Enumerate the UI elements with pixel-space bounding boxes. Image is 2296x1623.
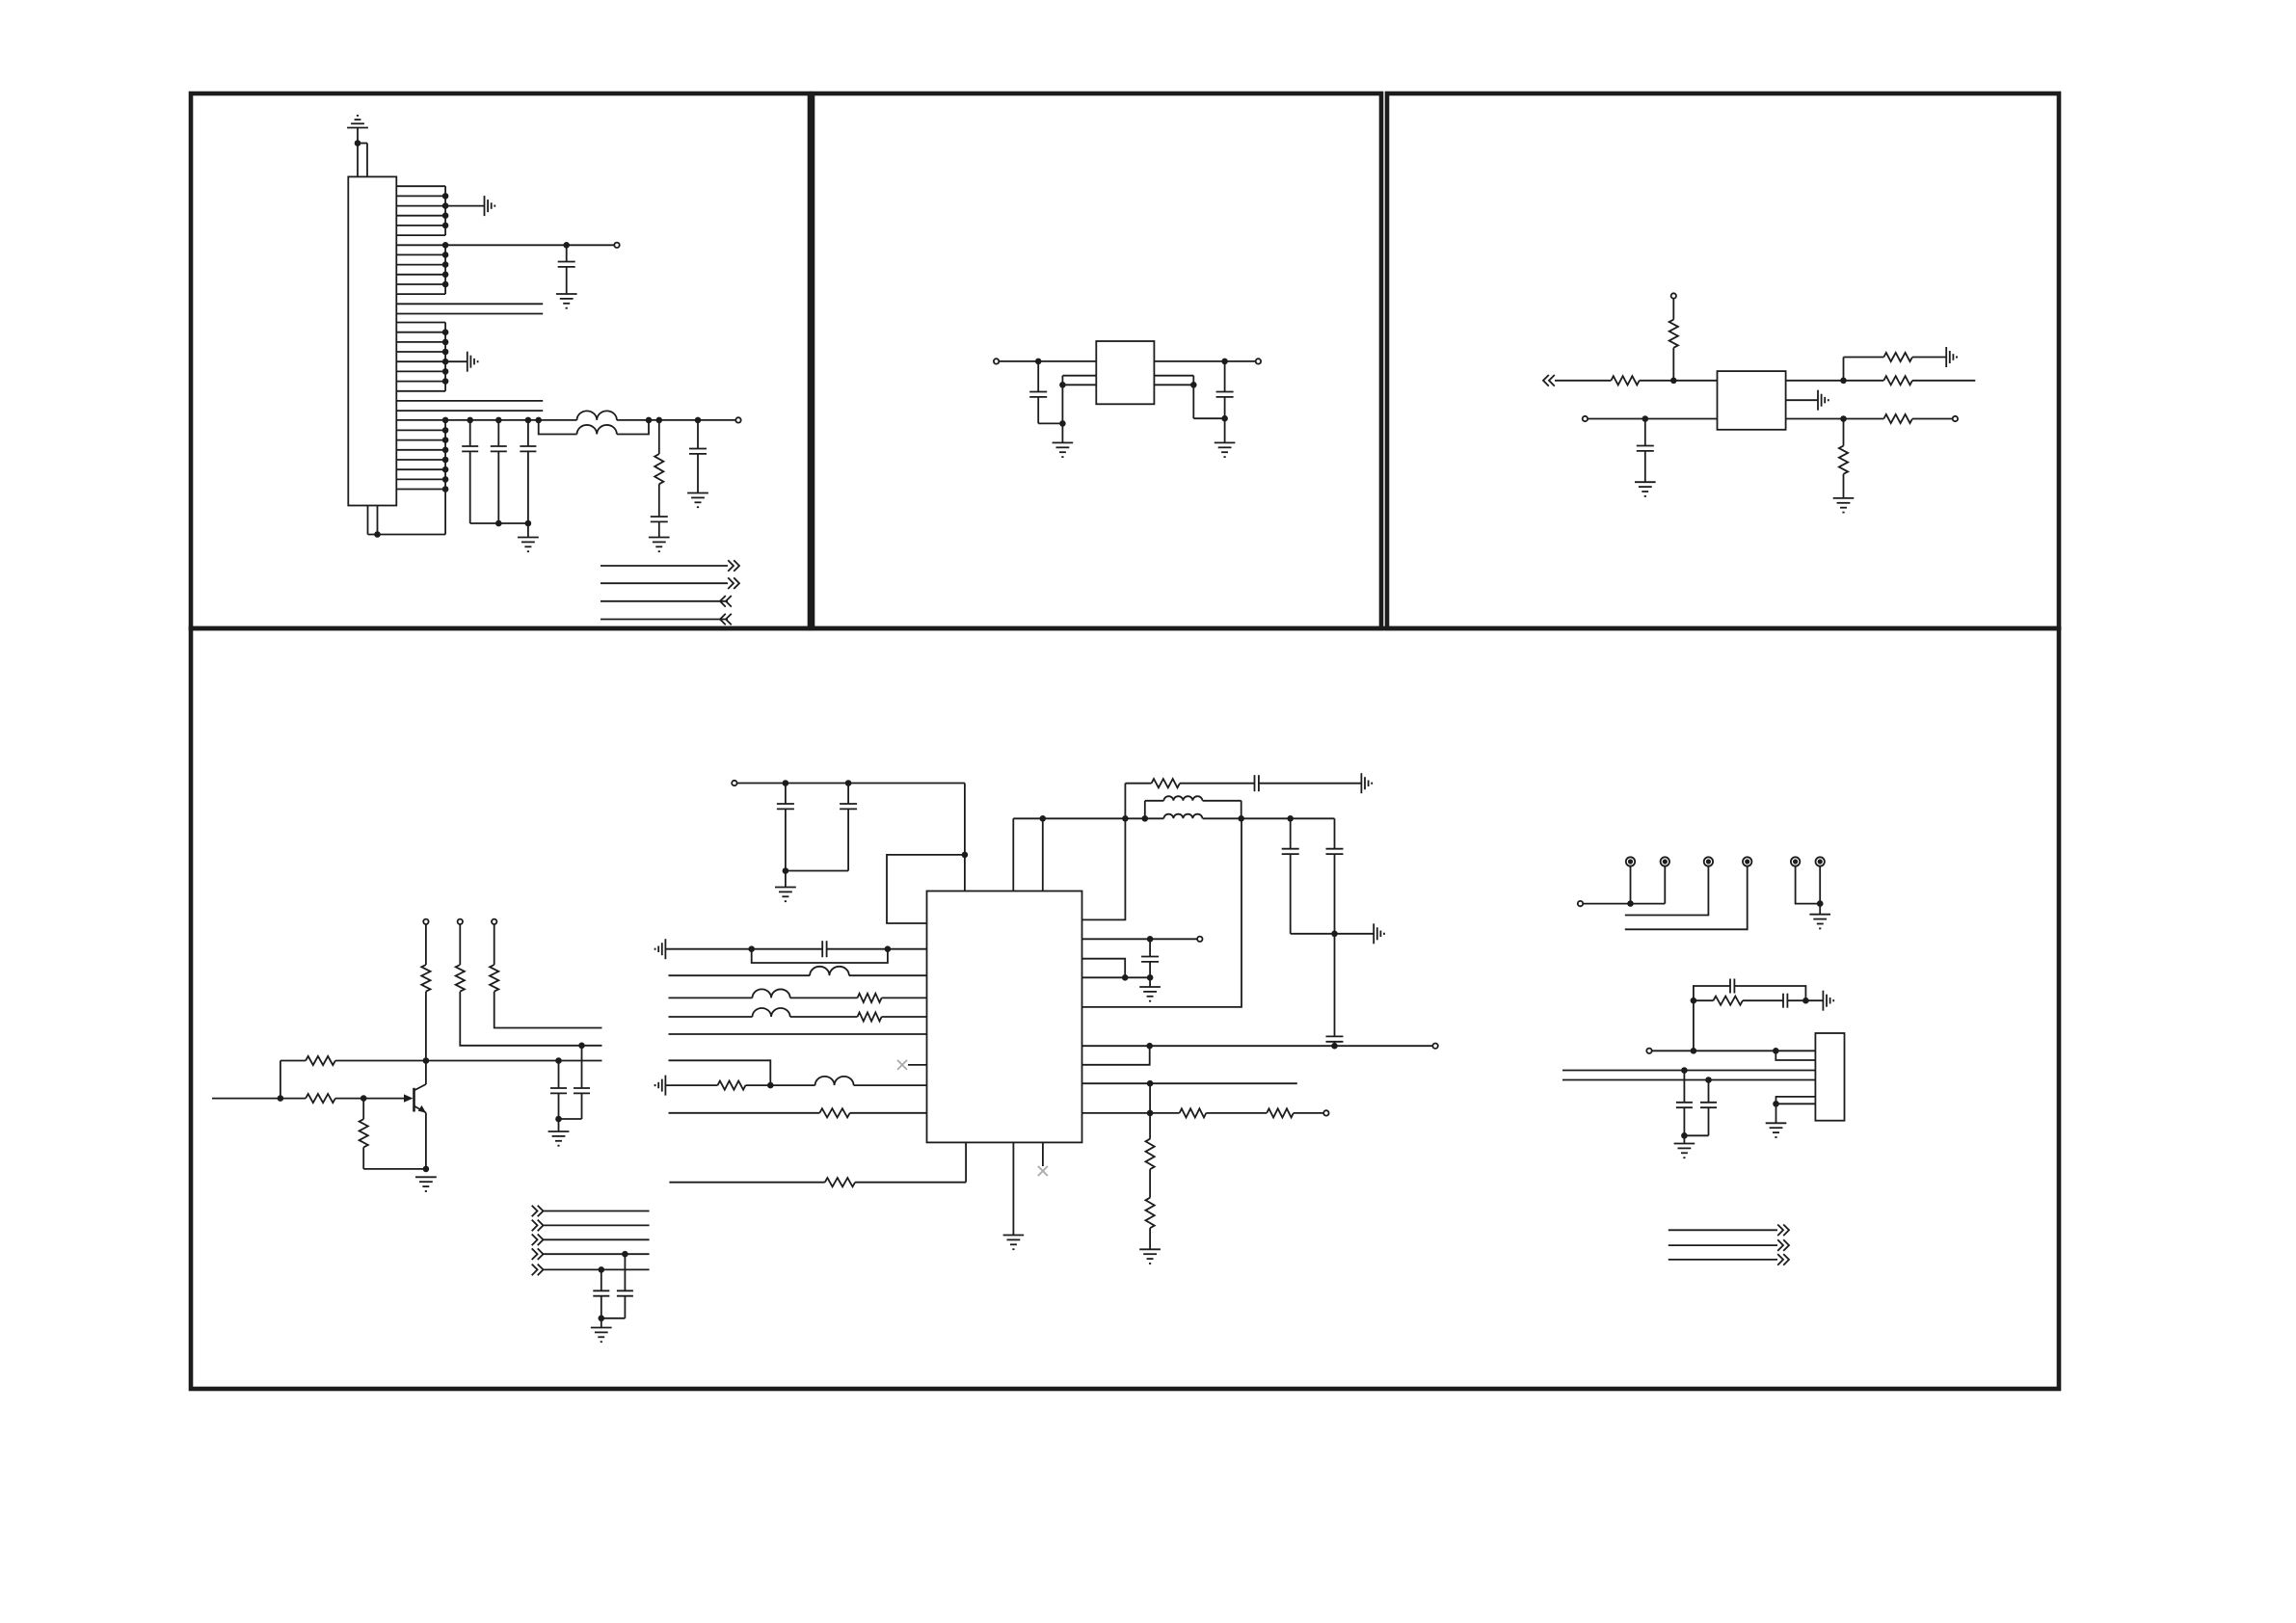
- junction dot collector: [423, 1057, 430, 1064]
- wire R3 to U3: [1640, 380, 1718, 382]
- ground (earth, TP6): [1809, 915, 1830, 929]
- capacitor C21: [1141, 939, 1159, 977]
- node output terminal: [1256, 359, 1261, 363]
- inductor L1 top winding: [577, 411, 617, 420]
- ground (earth, J2): [1766, 1104, 1787, 1137]
- resistor R17: [718, 1081, 746, 1090]
- wire bus row 4: [544, 1253, 650, 1255]
- wire supply down: [964, 784, 966, 891]
- resistor R7: [1883, 414, 1912, 423]
- wire row6 upper: [669, 1060, 771, 1085]
- resistor R6: [1839, 419, 1848, 498]
- resistor R23: [1146, 1169, 1155, 1249]
- junction dot row7: [767, 1082, 774, 1089]
- resistor R11 feedback: [306, 1056, 335, 1065]
- wire pullup 3 to row: [494, 992, 602, 1028]
- resistor R4: [1883, 353, 1912, 361]
- capacitor C20 series: [822, 941, 826, 957]
- wire bus row 5: [544, 1268, 650, 1270]
- inductor L4: [753, 989, 790, 998]
- junction dot r-row2: [1147, 936, 1154, 943]
- junction dot row5 cap: [578, 1043, 585, 1050]
- wire J1 top pins to ground: [358, 128, 367, 177]
- resistor R18: [819, 1108, 849, 1117]
- wire U3 lower out: [1786, 418, 1884, 420]
- node rowR terminal: [1323, 1110, 1328, 1115]
- wire TP6 stem: [1819, 866, 1821, 915]
- wire J1 pin group D to bus: [396, 420, 445, 535]
- junction dots group D: [442, 427, 449, 492]
- capacitor C15: [786, 784, 857, 871]
- junction dots power row: [442, 417, 542, 424]
- capacitor C11: [574, 1046, 590, 1119]
- ground (earth, cap rail): [518, 538, 539, 552]
- wire stub rows 2: [396, 401, 543, 411]
- frame box top-middle: [813, 93, 1381, 628]
- inductor L2 lower: [1163, 814, 1202, 819]
- arrow out right 2: [1777, 1239, 1789, 1251]
- junction dot supply 1: [783, 780, 789, 786]
- wire pin2 link: [1775, 1051, 1815, 1060]
- capacitor C8: [1216, 361, 1234, 442]
- capacitor C1: [558, 245, 575, 294]
- wire U4 gnd stub: [1012, 1142, 1014, 1235]
- wire row7: [665, 1084, 926, 1086]
- wire top branch: [1125, 784, 1151, 819]
- ground (earth, bus caps): [591, 1318, 612, 1342]
- transistor Q1: [414, 1084, 426, 1113]
- junction dot conn a: [1691, 1048, 1697, 1054]
- junction dot conn b: [1773, 1048, 1779, 1054]
- wire bottom row: [669, 1142, 966, 1182]
- capacitor C25: [1684, 1080, 1717, 1136]
- wire signal lines out: [601, 566, 728, 620]
- ground (earth, J2 caps): [1674, 1135, 1695, 1157]
- capacitor C22 series: [1743, 994, 1806, 1008]
- test point TP3: [1704, 857, 1713, 865]
- wire CL rail: [1038, 422, 1062, 424]
- ground (earth, r-row4): [1139, 977, 1161, 1000]
- inductor L3: [810, 967, 849, 975]
- resistor R22: [1146, 1113, 1155, 1169]
- junction dots group B: [442, 252, 449, 287]
- wire choke bottom path: [539, 420, 649, 435]
- wire row1 bypass: [752, 949, 888, 963]
- wire rail to ground: [527, 523, 529, 538]
- ground (earth, C9): [1635, 482, 1656, 496]
- junction dot choke out 2: [656, 417, 663, 424]
- junction dot top: [355, 140, 361, 146]
- junction dot row6 cap: [555, 1057, 562, 1064]
- wire TP5 stem: [1796, 866, 1821, 904]
- wire bus row 3: [544, 1238, 650, 1240]
- junction dots cap rail: [495, 520, 531, 527]
- arrow in 1: [720, 596, 732, 607]
- wire J1 pin row B long: [396, 244, 614, 246]
- junction dot CR rail: [1221, 415, 1228, 422]
- ground (earth, U4): [1003, 1236, 1025, 1250]
- test point TP6: [1816, 857, 1825, 865]
- junction dot supply branch: [962, 852, 969, 859]
- junction dot rail a: [1040, 815, 1047, 822]
- node input terminal: [994, 359, 999, 363]
- wire r-row4: [1082, 976, 1151, 978]
- junction dot node B: [1802, 998, 1809, 1004]
- wire r-row2: [1082, 938, 1198, 940]
- ground (top, inverted earth): [347, 116, 368, 128]
- junction dot bus row4: [622, 1251, 628, 1258]
- frame box top-right: [1387, 93, 2059, 628]
- wire U2 out to terminal: [1154, 360, 1255, 362]
- wire row3: [669, 997, 927, 998]
- ground (earth, divider): [1139, 1249, 1161, 1264]
- node supply terminal: [732, 781, 736, 785]
- junction dots group C: [442, 329, 449, 385]
- junction dots group A: [442, 193, 449, 228]
- ground (earth, C1): [556, 294, 577, 308]
- junction dot bias: [1670, 378, 1677, 385]
- junction dot choke out 1: [646, 417, 653, 424]
- arrow out right 3: [1777, 1254, 1789, 1265]
- junction dot lower R: [1840, 415, 1847, 422]
- ground (earth, supply caps): [775, 871, 796, 902]
- no-connect stub: [1038, 1142, 1048, 1176]
- wire cap to ground: [1259, 783, 1362, 785]
- ground (earth, U2 left): [1053, 442, 1074, 457]
- wire R7 to terminal: [1912, 418, 1953, 420]
- resistor R16: [858, 1012, 882, 1021]
- junction dot cap branch: [695, 417, 702, 424]
- junction dot CL: [1035, 359, 1042, 365]
- resistor R21: [1267, 1108, 1294, 1117]
- resistor R24: [1694, 997, 1743, 1005]
- capacitor C17: [1282, 818, 1299, 934]
- inductor L2 upper: [1145, 796, 1241, 818]
- node B terminal: [614, 243, 619, 248]
- capacitor C13: [601, 1254, 633, 1318]
- ground (chassis, row7): [655, 1076, 666, 1096]
- wire bus line 2: [1562, 1079, 1815, 1081]
- wire node A down: [1693, 1000, 1695, 1051]
- junction dot rail e: [1287, 815, 1294, 822]
- wire r-row1: [1082, 818, 1126, 919]
- junction dot cap rail: [555, 1116, 562, 1123]
- wire choke top out: [617, 419, 735, 421]
- arrow in 2: [720, 614, 732, 625]
- ground (earth, R6): [1833, 498, 1855, 513]
- junction dot lower L: [1642, 415, 1649, 422]
- ground (earth, caps): [548, 1119, 570, 1146]
- wire input to U2: [999, 360, 1096, 362]
- capacitor C10: [550, 1061, 567, 1120]
- resistor R9: [456, 924, 465, 992]
- test point TP1: [1626, 857, 1635, 865]
- wire divider link: [1149, 1083, 1151, 1113]
- inductor L6: [815, 1077, 854, 1085]
- wire TP2 stem: [1664, 866, 1666, 904]
- junction dot left pin: [1059, 382, 1066, 388]
- arrow bus in 1: [532, 1206, 544, 1217]
- wire node B to ground: [1805, 999, 1823, 1001]
- wire arrow-out row 1: [1669, 1229, 1777, 1231]
- frame box bottom: [191, 628, 2059, 1389]
- junction dot out: [1840, 378, 1847, 385]
- wire r-rowR: [1082, 1112, 1324, 1114]
- wire collector row: [280, 1060, 602, 1062]
- junction dot mid gnd: [1331, 931, 1338, 938]
- wire J1 pin group A to bus: [396, 186, 445, 235]
- wire r-rowC: [1082, 1082, 1297, 1084]
- resistor R10: [490, 924, 498, 992]
- wire input row: [1555, 380, 1611, 382]
- resistor R20: [1180, 1108, 1207, 1117]
- frame box top-left: [191, 93, 810, 628]
- junction dot r-row4 b: [1147, 974, 1154, 981]
- arrow bus in 4: [532, 1248, 544, 1260]
- ground (chassis, R4): [1946, 347, 1957, 367]
- ground (earth, C6): [687, 493, 708, 508]
- junction dot row1 a: [748, 945, 755, 952]
- junction dot B cap: [563, 242, 570, 249]
- ground (chassis, group A): [485, 196, 495, 216]
- resistor R8: [421, 924, 430, 992]
- wire supply row: [737, 783, 965, 785]
- wire pullup 1 down: [425, 992, 427, 1061]
- capacitor C3: [491, 420, 507, 523]
- no-connect pin: [897, 1060, 927, 1070]
- junction dot base in: [278, 1095, 284, 1102]
- node r-row2 terminal: [1197, 937, 1202, 942]
- wire feedback up: [280, 1061, 281, 1099]
- arrow bus in 2: [532, 1220, 544, 1232]
- capacitor C7: [1029, 361, 1047, 424]
- junction dot rail d: [1238, 815, 1244, 822]
- arrow base: [404, 1094, 414, 1102]
- resistor R14: [1152, 779, 1180, 787]
- wire branch up: [1844, 358, 1884, 381]
- wire stub rows 1: [396, 304, 543, 313]
- arrow out 2: [728, 577, 739, 589]
- ground (chassis, top branch): [1361, 773, 1372, 793]
- junction dot cap rail: [783, 867, 789, 874]
- junction dot B bus: [442, 242, 449, 249]
- capacitor C14: [777, 784, 794, 871]
- wire row4: [669, 1016, 927, 1018]
- ground (earth, emitter): [415, 1177, 437, 1191]
- connector J2: [1815, 1033, 1844, 1121]
- wire pullup 2 to row: [460, 992, 601, 1046]
- junction dot cap rail J2: [1681, 1132, 1688, 1139]
- wire bus A to ground: [445, 205, 484, 207]
- junction dot bus2: [1705, 1077, 1712, 1083]
- node TP terminal: [1578, 901, 1583, 906]
- wire U3 mid pin: [1786, 399, 1818, 401]
- wire bus C to ground: [445, 360, 467, 362]
- junction dot CR: [1221, 359, 1228, 365]
- wire cap bottom rail: [470, 522, 528, 524]
- wire row1: [665, 948, 926, 950]
- wire top rail: [1013, 817, 1334, 819]
- wire R4 to ground: [1912, 357, 1946, 359]
- wire base row: [212, 1098, 405, 1100]
- wire pin5 link: [1776, 1097, 1816, 1104]
- junction dot rowA a: [1146, 1043, 1153, 1050]
- wire J1 tail: [368, 506, 446, 535]
- wire J1 pin group C to bus: [396, 323, 445, 391]
- junction dot tail: [374, 531, 381, 538]
- wire bus row 2: [544, 1224, 650, 1226]
- arrow out 1: [728, 560, 739, 572]
- capacitor C16: [1255, 775, 1259, 791]
- capacitor C5: [651, 484, 668, 537]
- node pullup terminal 2: [458, 919, 463, 924]
- resistor R15: [858, 994, 882, 1002]
- junction dot r-row4 a: [1122, 974, 1129, 981]
- wire r-row5: [1082, 818, 1242, 1007]
- wire conn row: [1652, 1050, 1816, 1051]
- IC U2: [1096, 341, 1154, 404]
- wire TP3 stem: [1625, 866, 1709, 916]
- resistor R13 emitter: [360, 1099, 426, 1169]
- capacitor C4: [520, 420, 536, 523]
- resistor R3: [1611, 376, 1639, 385]
- IC U4: [927, 891, 1082, 1143]
- node pullup terminal 3: [492, 919, 496, 924]
- junction dot CL rail: [1059, 420, 1066, 427]
- wire lower row: [1588, 418, 1717, 420]
- junction dot bus row5: [599, 1266, 605, 1273]
- junction dot TP6: [1817, 900, 1824, 907]
- capacitor C18: [1326, 818, 1344, 934]
- wire TP1 stem: [1630, 866, 1632, 904]
- ground (chassis, mid): [1374, 923, 1384, 944]
- ground (earth, U2 right): [1215, 442, 1236, 457]
- wire collector: [425, 1061, 427, 1085]
- wire r-row3: [1082, 959, 1126, 978]
- IC U3: [1718, 371, 1786, 430]
- wire row2: [669, 974, 927, 976]
- wire pin6 link: [1776, 1103, 1816, 1104]
- capacitor C12: [593, 1269, 609, 1317]
- wire r-rowA: [1082, 1045, 1433, 1047]
- junction dot rowA b: [1331, 1043, 1338, 1050]
- resistor R19: [825, 1178, 855, 1186]
- capacitor C6: [689, 420, 707, 493]
- inductor L1 bottom winding: [577, 425, 617, 435]
- junction dot right pin: [1190, 382, 1197, 388]
- capacitor C9: [1637, 419, 1654, 483]
- ground (earth, R1 C5): [649, 538, 670, 552]
- wire R5 out: [1912, 380, 1975, 382]
- resistor R12 base: [306, 1094, 335, 1103]
- test point TP2: [1661, 857, 1669, 865]
- ground (chassis, row1): [655, 939, 666, 959]
- wire arrow-out row 2: [1669, 1244, 1777, 1246]
- junction dot rowC: [1147, 1080, 1154, 1087]
- node conn terminal: [1646, 1049, 1651, 1053]
- junction dot row1 b: [885, 945, 892, 952]
- inductor L5: [753, 1008, 790, 1017]
- capacitor C19: [1326, 934, 1344, 1046]
- capacitor C24: [1676, 1071, 1693, 1136]
- arrow bus in 3: [532, 1235, 544, 1246]
- wire U2 right pins: [1154, 376, 1224, 419]
- wire supply branch to pin: [887, 855, 965, 923]
- node lower terminal R: [1953, 416, 1958, 421]
- wire arrow-out row 3: [1669, 1259, 1777, 1261]
- wire row8: [669, 1112, 927, 1114]
- resistor R2: [1669, 299, 1678, 381]
- wire J1 pin group B to bus: [396, 245, 445, 294]
- wire U3 out row: [1786, 380, 1884, 382]
- junction dot rail b: [1122, 815, 1129, 822]
- wire row5: [669, 1033, 927, 1035]
- wire rail drop 1: [1012, 818, 1014, 891]
- resistor R5: [1883, 376, 1912, 385]
- wire U2 left pins: [1062, 376, 1096, 442]
- wire bus row 1: [544, 1211, 650, 1212]
- ground (chassis, group C): [467, 352, 478, 372]
- wire TP row: [1583, 903, 1665, 905]
- node bias terminal: [1671, 293, 1676, 298]
- junction dot caps rail: [599, 1316, 605, 1322]
- resistor R1: [654, 420, 663, 484]
- test point TP5: [1791, 857, 1800, 865]
- junction dot rail c: [1142, 815, 1149, 822]
- junction dot base node: [360, 1095, 367, 1102]
- node lower terminal L: [1583, 416, 1588, 421]
- arrow out right 1: [1777, 1225, 1789, 1237]
- junction dot emitter: [423, 1166, 430, 1173]
- capacitor C23 parallel: [1694, 979, 1806, 1001]
- junction dot node A: [1691, 998, 1697, 1004]
- wire cap rail: [559, 1118, 582, 1120]
- wire r-rowB loop: [1082, 1046, 1150, 1065]
- wire rail drop 2: [1042, 818, 1044, 891]
- node rowA terminal: [1432, 1044, 1437, 1049]
- node power terminal: [735, 417, 740, 422]
- arrow bus in 5: [532, 1264, 544, 1276]
- connector J1: [348, 176, 396, 505]
- wire bus line 1: [1562, 1070, 1815, 1072]
- arrow input: [1543, 375, 1555, 386]
- wire emitter: [425, 1113, 427, 1169]
- test point TP4: [1743, 857, 1751, 865]
- wire R14 to cap: [1180, 783, 1255, 785]
- wire mid gnd row: [1291, 933, 1375, 935]
- ground (chassis, U3 mid): [1818, 390, 1829, 411]
- ground (chassis, node B): [1823, 991, 1833, 1011]
- wire J1 power row: [396, 419, 576, 421]
- node pullup terminal 1: [423, 919, 428, 924]
- capacitor C2: [462, 420, 478, 523]
- junction dot pin56: [1773, 1101, 1779, 1107]
- junction dot supply 2: [845, 780, 852, 786]
- junction dot bus1: [1681, 1067, 1688, 1074]
- wire TP4 stem: [1625, 866, 1748, 930]
- junction dot TP1: [1627, 900, 1634, 907]
- junction dot rowR: [1147, 1110, 1154, 1117]
